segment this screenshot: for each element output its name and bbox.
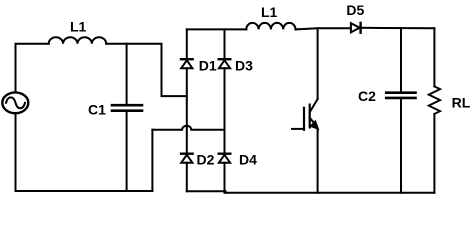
transistor Q1 (IGBT): [292, 99, 318, 130]
capacitor C1: [112, 105, 142, 111]
diode D4: [219, 154, 231, 163]
wire: bottom right rail: [187, 190, 226, 192]
svg-text:D2: D2: [197, 151, 215, 167]
diode D2: [181, 154, 193, 163]
wire: bridge top rail: [187, 28, 247, 30]
wire: return to bridge right midpoint with hop over left branch: [152, 126, 224, 130]
wire: bridge left branch middle: [186, 68, 188, 153]
inductor L1 (input): [49, 37, 107, 44]
wire: C2 top branch: [400, 28, 402, 91]
wire: IGBT emitter branch: [317, 129, 319, 193]
svg-text:D1: D1: [199, 57, 217, 73]
wire: source top to L1: [16, 44, 49, 93]
svg-text:D4: D4: [239, 151, 257, 167]
wire: bridge left branch lower: [186, 163, 188, 192]
wire: L1 to corner, down, to bridge left midpoint: [106, 44, 187, 96]
diode D1: [181, 59, 193, 68]
wire: IGBT collector branch: [317, 28, 319, 99]
diode D3: [219, 59, 231, 68]
resistor RL: [429, 86, 440, 114]
wire: bridge left branch upper: [186, 29, 188, 59]
wire: D5 cathode to top right corner: [361, 27, 435, 30]
diode D5: [351, 23, 361, 33]
svg-text:C2: C2: [358, 88, 376, 104]
wire: bridge right branch middle: [224, 68, 226, 153]
wire: C2 bottom branch: [400, 99, 402, 193]
wire: C1 bottom branch: [126, 112, 128, 191]
svg-text:L1: L1: [261, 4, 278, 20]
wire: L1 to D5 anode: [296, 28, 351, 29]
svg-text:RL: RL: [452, 94, 471, 110]
wire: RL bottom branch: [433, 114, 435, 193]
capacitor C2: [386, 93, 415, 98]
wire: bridge right branch lower: [224, 163, 226, 193]
wire: C1 top branch: [126, 44, 128, 104]
svg-text:D5: D5: [346, 2, 364, 18]
wire: return riser: [151, 130, 153, 191]
wire: bottom left rail: [16, 113, 153, 191]
wire: RL top branch: [433, 28, 435, 86]
AC source: [2, 92, 28, 113]
wire: bottom output rail: [225, 192, 435, 194]
inductor L1 (output): [246, 23, 295, 30]
svg-text:L1: L1: [70, 18, 87, 34]
wire: bridge right branch upper: [224, 29, 226, 59]
svg-text:C1: C1: [88, 101, 106, 117]
svg-text:D3: D3: [235, 57, 253, 73]
